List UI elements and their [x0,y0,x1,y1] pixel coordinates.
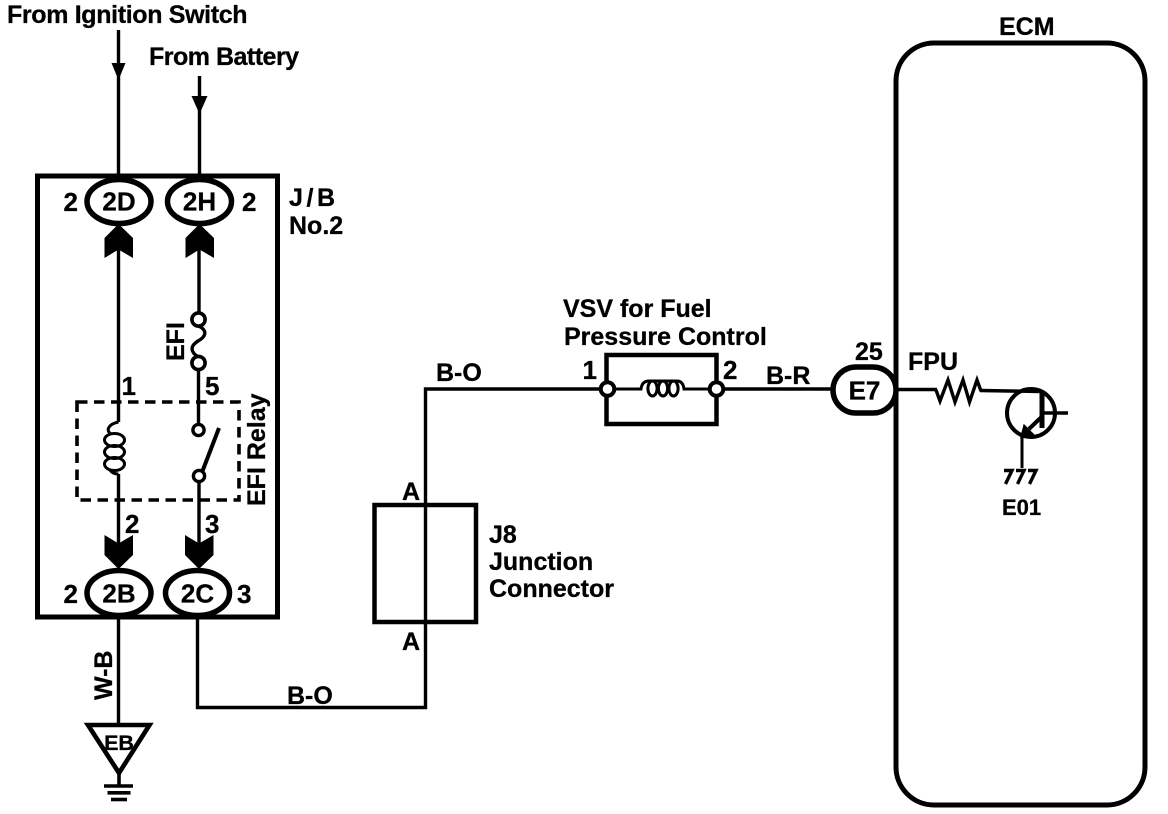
svg-text:5: 5 [205,371,219,401]
svg-text:2C: 2C [181,579,214,609]
svg-text:EFI Relay: EFI Relay [243,393,271,506]
svg-text:2: 2 [64,579,78,609]
svg-text:B-R: B-R [766,362,810,390]
svg-text:Connector: Connector [489,575,614,603]
svg-text:VSV for Fuel: VSV for Fuel [563,295,712,323]
svg-text:2: 2 [125,509,139,539]
svg-text:From Ignition Switch: From Ignition Switch [7,1,247,29]
svg-text:Pressure Control: Pressure Control [564,323,767,351]
svg-text:2: 2 [64,187,78,217]
svg-text:2B: 2B [102,579,135,609]
svg-text:1: 1 [583,355,597,385]
svg-text:Junction: Junction [489,548,593,576]
svg-text:J8: J8 [489,521,517,549]
svg-text:3: 3 [205,509,219,539]
svg-text:E7: E7 [849,376,881,406]
svg-text:E01: E01 [1002,495,1041,520]
svg-text:From Battery: From Battery [149,43,299,71]
svg-text:A: A [402,478,420,506]
svg-text:FPU: FPU [908,348,958,376]
svg-text:2: 2 [723,355,737,385]
svg-text:J/B: J/B [289,184,339,212]
svg-text:1: 1 [122,371,136,401]
svg-text:25: 25 [855,338,883,366]
svg-text:ECM: ECM [999,13,1055,41]
svg-text:2: 2 [242,187,256,217]
svg-text:2D: 2D [102,187,135,217]
svg-text:EFI: EFI [162,322,190,361]
svg-text:B-O: B-O [436,359,482,387]
svg-text:B-O: B-O [287,682,333,710]
svg-text:3: 3 [237,579,251,609]
svg-text:No.2: No.2 [289,212,343,240]
svg-text:EB: EB [104,731,134,755]
svg-text:W-B: W-B [90,651,118,700]
svg-text:2H: 2H [183,187,216,217]
svg-text:A: A [402,628,420,656]
